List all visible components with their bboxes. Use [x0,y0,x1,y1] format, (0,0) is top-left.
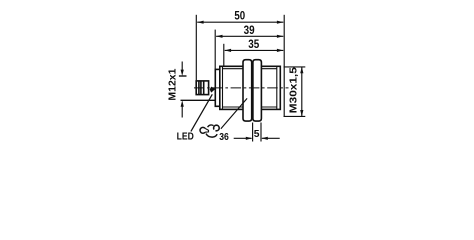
svg-text:39: 39 [244,24,255,37]
dimension 5 (lock nut width) [234,123,280,142]
svg-text:M12x1: M12x1 [167,68,178,100]
svg-text:5: 5 [254,129,260,140]
dimension 39 [215,30,283,70]
svg-text:35: 35 [248,38,259,51]
svg-text:LED: LED [177,131,194,142]
dimension M12x1 (vertical, left) [179,62,215,118]
flange (housing end cap with LED ring) [215,69,220,106]
svg-text:M30x1,5: M30x1,5 [288,67,299,113]
dimension 35 [224,44,283,66]
wrench icon [200,125,219,137]
dimension M30x1,5 (vertical, right) [284,67,306,117]
LED leader line [191,87,216,132]
barrel (threaded body M30) [220,66,280,109]
svg-text:50: 50 [234,10,245,23]
thread minor lines [223,68,277,70]
centerline [194,87,289,89]
wrench leader line [221,98,247,128]
hex nut SW36 (two chamfered faces) [243,60,261,121]
svg-text:36: 36 [219,132,229,143]
dimension 50 [196,15,284,117]
M12 connector plug [196,81,208,95]
